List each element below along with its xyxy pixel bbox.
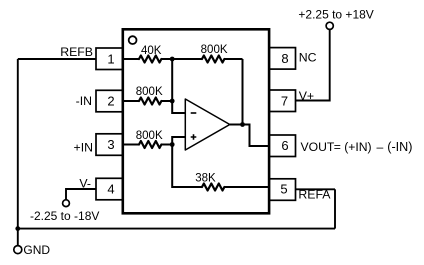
wire bottom REFA/REFB bus <box>18 228 335 230</box>
op-amp plus sign <box>191 134 197 140</box>
junction output node dot <box>240 122 245 127</box>
wire pin 5 to riser <box>296 188 336 190</box>
wire pin 7 to V+ terminal <box>296 29 330 100</box>
svg-text:+2.25 to +18V: +2.25 to +18V <box>298 7 373 21</box>
wire pin 4 to V- terminal <box>66 189 96 200</box>
svg-text:(-IN): (-IN) <box>387 140 412 154</box>
svg-text:-2.25 to -18V: -2.25 to -18V <box>30 209 99 223</box>
svg-text:800K: 800K <box>201 44 228 56</box>
svg-text:VOUT: VOUT <box>301 140 335 154</box>
svg-text:1: 1 <box>107 52 114 67</box>
pin 3 box <box>96 134 123 156</box>
svg-text:REFA: REFA <box>298 187 331 201</box>
svg-text:2: 2 <box>107 94 114 109</box>
junction node N2 row3 dot <box>170 142 175 147</box>
junction node N1 top dot <box>170 57 175 62</box>
wire left bus vertical <box>17 59 19 229</box>
wire op-amp output <box>230 125 269 147</box>
pin 1 indicator circle <box>129 36 137 44</box>
wire row1 40K to 800K <box>161 58 203 60</box>
op-amp A1 <box>185 99 230 150</box>
svg-text:800K: 800K <box>136 130 163 142</box>
resistor 40K <box>139 56 161 63</box>
op-amp minus sign <box>191 112 197 114</box>
wire row2 800K to node N1 <box>161 100 172 102</box>
pin 7 box <box>269 90 295 112</box>
wire row2 pin2 to 800K <box>123 100 140 102</box>
svg-text:5: 5 <box>280 182 287 197</box>
wire row1 pin1 to 40K <box>123 58 140 60</box>
pin 2 box <box>96 90 123 112</box>
wire GND stem <box>17 229 19 246</box>
V- terminal circle <box>63 200 70 207</box>
svg-text:REFB: REFB <box>60 45 93 59</box>
junction node N1 row2 dot <box>170 99 175 104</box>
svg-text:3: 3 <box>107 137 114 152</box>
svg-text:GND: GND <box>23 243 50 257</box>
wire node N1 vertical to inverting input <box>172 59 185 113</box>
svg-text:7: 7 <box>281 93 288 108</box>
wire node N2 vertical <box>172 137 202 187</box>
resistor 800K input plus <box>139 141 161 148</box>
svg-text:NC: NC <box>299 51 317 65</box>
pin 8 box <box>269 48 295 70</box>
resistor 38K <box>202 184 224 191</box>
svg-text:(+IN): (+IN) <box>344 140 371 154</box>
svg-text:-IN: -IN <box>76 94 92 108</box>
wire feedback vertical <box>242 59 244 125</box>
wire right riser to REFA <box>334 189 336 228</box>
pin 1 box <box>96 48 123 70</box>
resistor 800K feedback <box>202 56 224 63</box>
wire 38K to pin 5 <box>224 186 269 188</box>
svg-text:40K: 40K <box>141 45 162 57</box>
svg-text:V+: V+ <box>299 89 314 103</box>
wire row3 pin3 to 800K <box>123 144 140 146</box>
svg-text:+IN: +IN <box>74 141 93 155</box>
pin 4 box <box>96 178 123 200</box>
wire row1 800K to feedback corner <box>224 58 243 60</box>
pin 5 box <box>269 179 295 201</box>
pin 6 box <box>269 135 295 157</box>
ground terminal circle <box>14 246 22 254</box>
junction ground node dot <box>15 226 20 231</box>
resistor 800K input minus <box>139 98 161 105</box>
IC package U1 <box>123 29 269 213</box>
wire REFB from pin 1 to left bus <box>18 58 96 60</box>
svg-text:V-: V- <box>79 176 91 190</box>
V+ terminal circle <box>326 22 333 29</box>
svg-text:38K: 38K <box>195 172 216 184</box>
svg-text:4: 4 <box>107 182 114 197</box>
svg-text:6: 6 <box>281 138 288 153</box>
svg-text:=: = <box>334 140 341 154</box>
svg-text:–: – <box>377 140 384 154</box>
wire row3 800K to node N2 <box>161 144 172 146</box>
svg-text:8: 8 <box>281 51 288 66</box>
svg-text:800K: 800K <box>136 86 163 98</box>
